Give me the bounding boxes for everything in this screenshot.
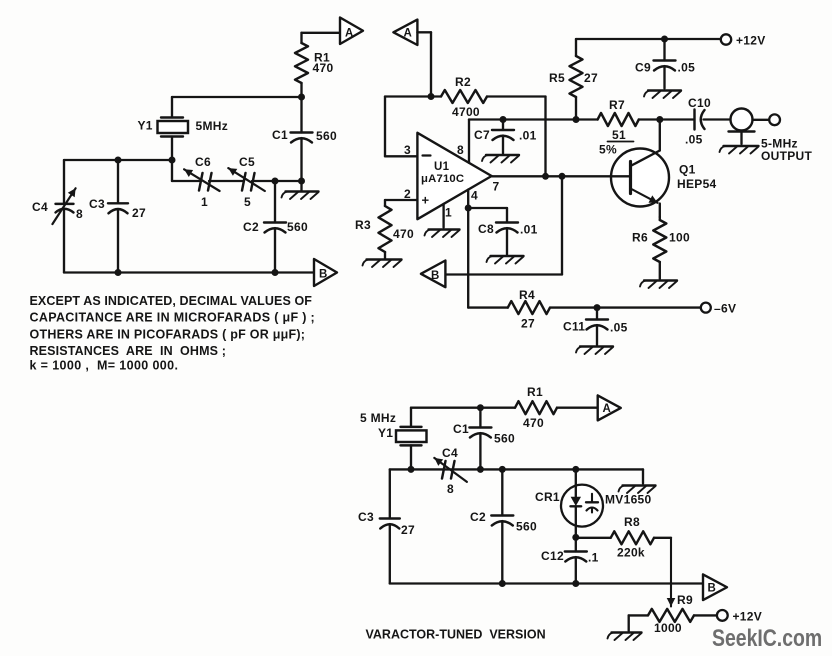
svg-text:.01: .01 xyxy=(520,223,538,237)
wire bottom rail to flag B xyxy=(64,271,314,273)
svg-text:B: B xyxy=(708,583,716,595)
ground below R3 xyxy=(363,260,402,268)
caption VARACTOR-TUNED VERSION xyxy=(366,628,546,642)
wire +12V rail xyxy=(576,38,721,40)
flag B (varactor version) xyxy=(703,574,727,600)
node C2 top junction xyxy=(272,178,279,185)
node C2 bottom (varactor) xyxy=(499,580,506,587)
svg-text:C8: C8 xyxy=(478,222,494,236)
capacitor C7 xyxy=(474,120,537,154)
capacitor C1 xyxy=(272,97,337,181)
watermark SeekIC.com xyxy=(712,624,822,651)
svg-text:RESISTANCES ARE IN OHMS ;: RESISTANCES ARE IN OHMS ; xyxy=(30,344,227,358)
svg-text:560: 560 xyxy=(494,432,515,446)
ground below C7 xyxy=(482,155,519,163)
svg-text:Q1: Q1 xyxy=(679,163,696,177)
svg-text:C9: C9 xyxy=(635,60,651,74)
svg-text:5: 5 xyxy=(244,195,251,209)
svg-text:560: 560 xyxy=(287,220,308,234)
terminal 5-MHz output xyxy=(769,114,780,125)
svg-text:27: 27 xyxy=(521,317,535,331)
svg-text:.05: .05 xyxy=(685,133,703,147)
svg-text:51: 51 xyxy=(612,128,626,142)
resistor R2 xyxy=(385,75,546,119)
svg-text:.05: .05 xyxy=(678,60,696,74)
svg-text:+12V: +12V xyxy=(733,610,763,624)
node crystal bottom junction xyxy=(169,157,176,164)
svg-text:VARACTOR-TUNED VERSION: VARACTOR-TUNED VERSION xyxy=(366,628,546,642)
svg-text:C6: C6 xyxy=(195,155,211,169)
flag A (op-amp circuit) xyxy=(393,20,417,45)
resistor R3 xyxy=(355,200,414,259)
svg-text:C4: C4 xyxy=(442,446,458,460)
svg-text:EXCEPT AS INDICATED, DECIMAL V: EXCEPT AS INDICATED, DECIMAL VALUES OF xyxy=(30,294,313,308)
svg-text:A: A xyxy=(603,403,611,415)
wire pin4 drop xyxy=(467,190,469,308)
node CR1/R8/C12 junction xyxy=(572,534,579,541)
svg-text:1000: 1000 xyxy=(654,621,682,635)
ground at C1/C5 node xyxy=(282,181,319,199)
svg-text:R1: R1 xyxy=(527,385,543,399)
node C3 bottom junction xyxy=(115,269,122,276)
svg-text:μA710C: μA710C xyxy=(421,173,464,185)
svg-text:100: 100 xyxy=(669,231,690,245)
wire pin8 riser xyxy=(469,120,503,163)
node C2 bottom junction xyxy=(272,269,279,276)
svg-text:470: 470 xyxy=(313,61,334,75)
svg-text:4700: 4700 xyxy=(452,105,480,119)
crystal Y1 (varactor version) xyxy=(360,408,427,470)
label 5-MHz OUTPUT xyxy=(761,137,812,164)
svg-text:A: A xyxy=(404,28,412,40)
svg-text:CR1: CR1 xyxy=(535,490,560,504)
node C7 top junction xyxy=(500,116,507,123)
terminal +12V (main) xyxy=(721,34,766,48)
wire pin8 rail to R5/R7 xyxy=(503,118,576,120)
svg-text:.1: .1 xyxy=(588,551,599,565)
ground below C11 xyxy=(576,347,613,355)
capacitor C2 xyxy=(243,181,308,273)
svg-text:HEP54: HEP54 xyxy=(677,177,717,191)
svg-text:OUTPUT: OUTPUT xyxy=(761,149,812,163)
wire crystal to C1 top xyxy=(411,407,480,409)
svg-text:+12V: +12V xyxy=(736,34,766,48)
capacitor C6 (variable, 1 pF) xyxy=(184,155,220,209)
wire varactor bottom rail xyxy=(390,582,703,584)
wire crystal top to R1 node xyxy=(172,96,302,98)
node C1 bottom (varactor) xyxy=(477,466,484,473)
capacitor C2 (varactor version) xyxy=(470,469,537,583)
capacitor C3 xyxy=(89,160,146,273)
wire C5 to ground node xyxy=(252,180,302,182)
resistor R1 (varactor version) xyxy=(480,385,597,430)
svg-text:27: 27 xyxy=(132,206,146,220)
ground below C8 xyxy=(487,256,524,264)
svg-text:C7: C7 xyxy=(474,128,490,142)
svg-text:8: 8 xyxy=(457,143,464,157)
terminal -6V xyxy=(701,302,736,316)
svg-text:C2: C2 xyxy=(243,220,259,234)
resistor R1 xyxy=(295,33,333,97)
svg-text:560: 560 xyxy=(316,129,337,143)
ground below R6 xyxy=(640,281,677,289)
svg-text:8: 8 xyxy=(76,207,83,221)
wire pin2 input xyxy=(385,199,417,201)
svg-text:Y1: Y1 xyxy=(138,119,153,133)
terminal +12V (varactor) xyxy=(717,610,762,624)
ground at pin 1 xyxy=(425,230,460,238)
pin 4 label xyxy=(471,189,478,203)
svg-text:220k: 220k xyxy=(617,546,645,560)
resistor R8 xyxy=(576,515,671,560)
pin 8 label xyxy=(457,143,464,157)
svg-text:27: 27 xyxy=(584,71,598,85)
notes text block xyxy=(30,294,316,372)
node R2 input junction xyxy=(428,93,435,100)
svg-text:3: 3 xyxy=(404,143,411,157)
wire pin3 riser xyxy=(385,97,417,157)
node C1/R1 junction (varactor) xyxy=(477,404,484,411)
svg-text:C1: C1 xyxy=(272,128,288,142)
svg-text:R7: R7 xyxy=(609,98,625,112)
wire flag A to R2 node xyxy=(417,32,431,96)
wire flag B riser xyxy=(445,176,562,274)
svg-text:1: 1 xyxy=(201,195,208,209)
flag A (left circuit) xyxy=(340,18,363,45)
svg-text:B: B xyxy=(431,270,439,282)
wire crystal node down to C6 row xyxy=(172,160,199,181)
capacitor C4 (varactor version, 8 pF) xyxy=(434,446,467,496)
svg-text:C10: C10 xyxy=(688,96,711,110)
resistor R6 xyxy=(632,217,690,279)
node feedback junction xyxy=(542,173,549,180)
crystal Y1 xyxy=(138,97,229,160)
wire varactor top rail xyxy=(390,468,643,470)
pin 7 label xyxy=(493,180,500,194)
ground at varactor rail right xyxy=(619,469,656,493)
svg-text:C12: C12 xyxy=(541,549,564,563)
svg-text:R3: R3 xyxy=(355,218,371,232)
svg-text:–6V: –6V xyxy=(714,302,736,316)
svg-text:560: 560 xyxy=(516,520,537,534)
capacitor C9 xyxy=(635,39,695,89)
flag A (varactor version) xyxy=(598,395,621,420)
wire jack to output terminal xyxy=(753,119,770,121)
svg-text:C2: C2 xyxy=(470,510,486,524)
capacitor C10 xyxy=(660,96,731,147)
svg-text:CAPACITANCE ARE IN MICROFARADS: CAPACITANCE ARE IN MICROFARADS ( μF ) ; xyxy=(30,311,316,325)
wire R5 node to R7 xyxy=(576,118,598,120)
ground below C9 xyxy=(644,91,681,99)
svg-text:C4: C4 xyxy=(32,200,48,214)
svg-text:MV1650: MV1650 xyxy=(605,493,652,507)
svg-text:k = 1000 , M= 1000 000.: k = 1000 , M= 1000 000. xyxy=(30,358,179,372)
output jack xyxy=(729,109,755,145)
wire C8 branch xyxy=(468,208,507,223)
svg-text:R4: R4 xyxy=(519,288,535,302)
node R1/C1/crystal junction xyxy=(298,94,305,101)
resistor R4 xyxy=(468,288,597,331)
svg-text:.01: .01 xyxy=(519,129,537,143)
pin 3 label xyxy=(404,143,411,157)
wire pin1 stub xyxy=(442,204,444,228)
capacitor C4 (variable, 8 pF) xyxy=(32,160,83,273)
svg-text:.05: .05 xyxy=(610,321,628,335)
wire to flag A (left circuit) xyxy=(302,32,341,34)
svg-text:A: A xyxy=(345,28,353,40)
potentiometer R9 xyxy=(629,593,717,635)
svg-text:U1: U1 xyxy=(434,161,450,173)
flag B (op-amp circuit) xyxy=(421,261,446,288)
svg-text:C11: C11 xyxy=(563,320,585,334)
node C12 bottom (varactor) xyxy=(572,580,579,587)
svg-text:7: 7 xyxy=(493,180,500,194)
node CR1 top (varactor) xyxy=(572,466,579,473)
capacitor C8 xyxy=(478,222,538,255)
node C3 top junction xyxy=(115,157,122,164)
node C1 bottom junction xyxy=(298,178,305,185)
svg-text:470: 470 xyxy=(393,227,414,241)
svg-text:B: B xyxy=(319,269,327,281)
svg-text:5%: 5% xyxy=(599,143,617,157)
svg-text:R5: R5 xyxy=(549,71,565,85)
capacitor C5 (variable, 5 pF) xyxy=(228,155,264,209)
varactor diode CR1 MV1650 xyxy=(535,469,652,537)
capacitor C11 xyxy=(563,308,628,345)
node crystal bottom (varactor) xyxy=(408,466,415,473)
node pin4/C8 junction xyxy=(465,205,472,212)
wire to -6V terminal xyxy=(597,306,701,308)
svg-text:+: + xyxy=(422,193,430,208)
wire R2 to output node xyxy=(544,97,546,177)
node C9 top junction xyxy=(661,36,668,43)
wire node to C3/C4 rail xyxy=(64,159,172,161)
transistor Q1 HEP54 xyxy=(611,120,717,218)
svg-text:OTHERS ARE IN PICOFARADS ( pF: OTHERS ARE IN PICOFARADS ( pF OR μμF); xyxy=(30,328,306,342)
svg-text:5MHz: 5MHz xyxy=(196,119,229,133)
svg-text:1: 1 xyxy=(445,206,452,220)
svg-text:R9: R9 xyxy=(677,593,693,607)
svg-text:5 MHz: 5 MHz xyxy=(360,411,396,425)
svg-text:C3: C3 xyxy=(89,197,105,211)
svg-text:R6: R6 xyxy=(632,231,648,245)
wire op-amp output to Q1 base xyxy=(492,175,631,177)
resistor R7 xyxy=(598,98,660,157)
node Q1 collector junction xyxy=(656,116,663,123)
svg-text:4: 4 xyxy=(471,189,478,203)
pin 1 label xyxy=(445,206,452,220)
svg-text:C3: C3 xyxy=(358,510,374,524)
svg-text:R2: R2 xyxy=(455,75,471,89)
capacitor C3 (varactor version) xyxy=(358,469,415,583)
potentiometer R9 wiper xyxy=(667,538,676,607)
ground below output jack xyxy=(720,146,759,154)
resistor R5 xyxy=(549,39,598,120)
svg-text:SeekIC.com: SeekIC.com xyxy=(712,624,822,651)
flag B (left circuit) xyxy=(314,259,337,286)
pin 2 label xyxy=(404,187,411,201)
svg-text:27: 27 xyxy=(401,523,415,537)
svg-text:Y1: Y1 xyxy=(378,426,393,440)
capacitor C1 (varactor version) xyxy=(453,408,515,470)
svg-text:R8: R8 xyxy=(624,515,640,529)
wire C6 to C5 xyxy=(209,180,243,182)
ground at R9 xyxy=(608,633,642,641)
node C11 top junction xyxy=(594,304,601,311)
svg-text:8: 8 xyxy=(447,482,454,496)
node C2 top (varactor) xyxy=(499,466,506,473)
op-amp U1 μA710C xyxy=(417,133,491,219)
svg-text:470: 470 xyxy=(523,416,544,430)
svg-text:C1: C1 xyxy=(453,422,469,436)
svg-text:C5: C5 xyxy=(239,155,255,169)
capacitor C12 xyxy=(541,537,599,583)
node B-branch junction xyxy=(559,173,566,180)
node R5 bottom junction xyxy=(573,116,580,123)
